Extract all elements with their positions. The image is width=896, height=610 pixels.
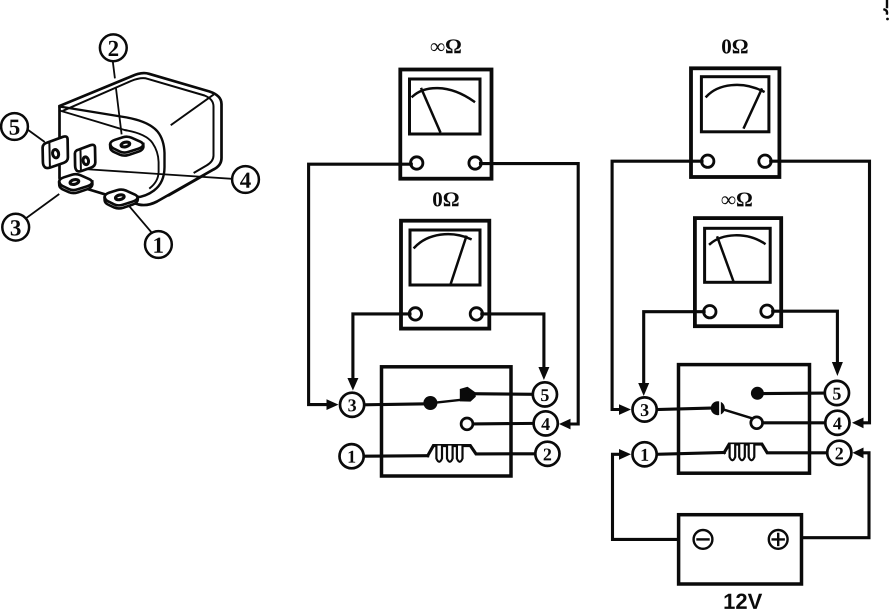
node circle 5 (right) <box>825 381 849 405</box>
ohmmeter M3 screen <box>701 77 769 132</box>
leader line to terminal 2 <box>113 62 122 134</box>
ohmmeter M3 scale arc <box>707 85 764 97</box>
node circle 2 (middle) <box>535 442 559 466</box>
svg-text:5: 5 <box>832 384 841 404</box>
relay body outline <box>60 73 222 205</box>
svg-text:3: 3 <box>348 395 357 415</box>
node circle 5 (middle) <box>533 382 557 406</box>
relay front-top edge <box>60 107 165 198</box>
callout circle 2 <box>100 34 127 61</box>
contact NO touched (open circle, right) <box>751 417 763 429</box>
ohmmeter M1 screen <box>410 79 481 134</box>
ohmmeter M4 terminals <box>704 306 716 318</box>
battery wire positive to terminal 2 <box>787 453 869 538</box>
relay lid seam top <box>64 78 214 172</box>
relay box (right) <box>679 365 810 474</box>
terminal 5 <box>43 136 68 168</box>
battery wire negative to terminal 1 <box>613 454 695 539</box>
wire terminal1 line (right) <box>657 453 725 455</box>
ohmmeter M4 (right bottom) body <box>695 218 781 326</box>
svg-text:2: 2 <box>108 36 120 61</box>
svg-text:4: 4 <box>833 413 842 433</box>
wire terminal4 line (right) <box>763 421 826 424</box>
svg-text:1: 1 <box>153 233 165 258</box>
svg-text:1: 1 <box>347 447 356 467</box>
svg-text:1: 1 <box>640 445 649 465</box>
switch arm (closed to 5) <box>434 400 461 403</box>
coil loop 2 (right) <box>739 444 745 460</box>
callout circle 1 <box>145 231 172 258</box>
ohmmeter M1 scale arc <box>413 88 475 101</box>
callout circle 4 <box>232 166 259 193</box>
svg-text:∞Ω: ∞Ω <box>721 187 753 211</box>
svg-text:4: 4 <box>541 414 550 434</box>
battery box <box>679 515 802 584</box>
ohmmeter M4 needle <box>718 238 734 282</box>
coil (middle relay) <box>428 446 536 456</box>
contact common with slit (right) <box>711 401 725 415</box>
wire terminal4 line <box>473 422 534 426</box>
ohmmeter M3 (right top) body <box>691 68 779 177</box>
svg-text:12V: 12V <box>723 589 762 610</box>
ohmmeter M2 screen <box>410 230 480 285</box>
node circle 3 (middle) <box>340 393 364 417</box>
wire M1 right to terminal 4 <box>481 164 579 424</box>
ohmmeter M1 (middle top) body <box>400 70 491 179</box>
ohmmeter M4 screen <box>705 228 771 282</box>
wire terminal5 line (right) <box>764 392 825 396</box>
callout circle 5 <box>1 113 28 140</box>
ohmmeter M3 terminals <box>702 155 714 167</box>
node circle 4 (middle) <box>534 411 558 435</box>
contact tip triangle <box>460 387 476 402</box>
terminal 2 <box>110 137 143 156</box>
switch arm (closed to 4, right) <box>725 410 755 419</box>
wire M1 left to terminal 3 <box>309 164 412 404</box>
coil loop 1 (right) <box>730 444 736 460</box>
node circle 1 (middle) <box>340 444 364 468</box>
coil loop 3 (right) <box>749 444 755 460</box>
coil loop 1 <box>436 446 442 462</box>
wire terminal3 to contact (right) <box>657 408 714 410</box>
wire M4 left to terminal 3 (top) <box>644 312 704 384</box>
svg-text:3: 3 <box>640 400 649 420</box>
wire terminal5 line <box>470 392 533 396</box>
contact NC dot (right, terminal5) <box>751 387 764 400</box>
ohmmeter M2 terminals <box>409 308 421 320</box>
node circle 1 (right) <box>633 442 657 466</box>
svg-text:4: 4 <box>240 168 252 193</box>
contact NO (open circle) <box>461 418 473 430</box>
relay seam bottom-right <box>169 176 204 196</box>
terminal 3 <box>59 174 92 193</box>
wire terminal3 to contact <box>364 404 426 405</box>
wire M4 right to terminal 5 (top) <box>773 311 838 363</box>
svg-text:0Ω: 0Ω <box>432 187 459 211</box>
wire M2 left to terminal 3 (top) <box>353 314 410 379</box>
scan artifact top-right <box>885 1 889 20</box>
relay box (middle) <box>382 367 512 476</box>
svg-text:3: 3 <box>10 215 22 240</box>
leader line to terminal 4 <box>88 169 233 179</box>
wire terminal1 line <box>364 454 428 458</box>
ohmmeter M2 (middle bottom) body <box>401 221 489 329</box>
ohmmeter M2 scale arc <box>415 234 471 247</box>
relay front face seam <box>60 111 159 189</box>
leader line to terminal 3 <box>25 195 59 220</box>
wire M2 right to terminal 5 (top) <box>482 314 544 368</box>
wire M3 left to terminal 3 <box>612 161 702 409</box>
terminal 1 <box>105 190 138 209</box>
ohmmeter M4 scale arc <box>710 235 765 244</box>
coil (right relay) <box>724 444 827 453</box>
svg-text:2: 2 <box>543 444 552 464</box>
coil loop 3 <box>457 446 463 462</box>
svg-text:5: 5 <box>9 115 21 140</box>
node circle 2 (right) <box>827 441 851 465</box>
leader line to terminal 5 <box>28 130 45 142</box>
ohmmeter M1 needle <box>422 89 441 132</box>
svg-text:2: 2 <box>835 443 844 463</box>
node circle 4 (right) <box>825 411 849 435</box>
callout circle 3 <box>2 214 29 241</box>
relay top face highlight line <box>172 95 214 125</box>
coil loop 2 <box>447 446 453 462</box>
wire M3 right to terminal 4 <box>771 161 870 423</box>
svg-text:0Ω: 0Ω <box>721 34 748 58</box>
ohmmeter M1 terminals <box>411 157 423 169</box>
contact common (dot) <box>423 396 437 410</box>
ohmmeter M3 needle <box>744 90 762 128</box>
svg-text:5: 5 <box>540 385 549 405</box>
node circle 3 (right) <box>633 397 657 421</box>
leader line to terminal 1 <box>130 207 153 234</box>
battery positive terminal <box>769 530 788 549</box>
battery negative terminal <box>694 530 713 549</box>
ohmmeter M2 needle <box>451 237 467 285</box>
terminal 4 <box>75 145 95 172</box>
svg-text:∞Ω: ∞Ω <box>430 34 462 58</box>
